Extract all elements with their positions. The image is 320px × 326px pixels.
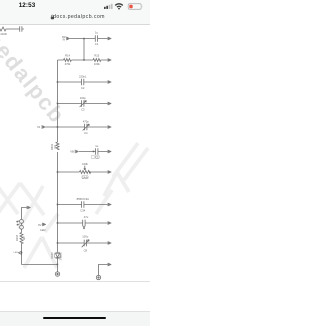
watermark pedalpcb large diagonal (bottom, angular logo strokes) [0,143,148,268]
status / url top bar [0,0,150,25]
node 9V floating flag [41,223,43,226]
wifi icon [115,4,123,7]
svg-text:47u: 47u [84,215,89,219]
url lock icon [51,17,54,20]
svg-text:1u: 1u [95,31,98,35]
arrow on C3 [80,101,87,107]
capacitor C3 row4 [82,100,84,106]
svg-text:LED: LED [14,252,19,254]
bottom toolbar + home indicator [0,311,150,326]
cell signal bars [104,6,108,9]
resistor R3 on bus [56,142,59,150]
svg-text:1M: 1M [53,145,57,149]
electrolytic body C7 below plates [83,226,85,229]
svg-text:C2: C2 [81,86,85,90]
svg-text:4k7: 4k7 [22,235,26,240]
capacitor C2 row3 [82,79,84,85]
svg-text:C3: C3 [81,107,85,111]
row6 wire [79,151,108,153]
node row5 left flag [41,125,43,129]
svg-text:100k: 100k [82,162,88,166]
capacitor C7 row9 [83,220,85,227]
row7 wire [58,171,108,173]
svg-text:220nL: 220nL [79,75,87,79]
svg-text:1N5817: 1N5817 [59,251,63,261]
svg-text:C34: C34 [80,208,85,212]
svg-text:9V: 9V [38,223,41,227]
status icons + url text as svg [0,0,150,325]
capacitor C1 row1 [95,35,97,41]
node LED top flag [26,206,28,209]
left bottom wire [22,264,58,266]
arrow on C8 [82,240,89,248]
node row8 flag [107,203,109,206]
row2 wire [58,59,108,61]
LED arrows [17,221,20,222]
row10 wire [58,242,108,244]
node row3 flag [107,80,109,83]
row7 wire tick [89,171,91,173]
top-left capacitor C100 [20,26,24,31]
resistor R1 row2 [64,59,72,62]
row5 wire [46,126,108,128]
svg-text:100u: 100u [82,235,88,239]
svg-text:pedalpcb: pedalpcb [0,26,70,128]
svg-text:IN: IN [63,39,66,42]
capacitor C8 row10 [84,240,86,247]
boxed labels (GND under C5, pot label box, C7 block) [82,155,99,178]
resistor R2 row2 [93,59,101,62]
node row2 flag [107,58,109,61]
row1 drop wire [83,39,85,61]
resistor R4 vertical [20,233,23,244]
svg-text:855K/C3A: 855K/C3A [77,197,89,201]
battery red fill [129,5,132,9]
arrow on C4 [83,124,90,130]
LED D2 circles [20,220,24,224]
node row5 right flag [107,125,109,128]
svg-text:C1: C1 [95,42,99,46]
node bottom right flag [107,263,109,266]
node row9 flag [107,221,109,224]
svg-text:LED: LED [40,228,45,232]
capacitor C4 row5 [85,124,87,130]
node row7 flag [107,170,109,173]
svg-text:100p: 100p [80,96,86,100]
svg-text:470p: 470p [83,120,89,124]
wire LED to resistor [21,229,23,232]
svg-text:D100: D100 [50,252,54,259]
left cluster: flag elbow [22,208,27,220]
node row4 flag [107,102,109,105]
schematic page [0,0,150,325]
node row6 right flag [107,150,109,153]
svg-text:C4: C4 [84,131,88,135]
svg-text:100R: 100R [0,32,6,36]
node OUT row1 flag [107,37,109,40]
svg-text:470k: 470k [65,62,71,66]
page separator line [0,280,150,283]
svg-text:C8: C8 [84,248,88,252]
row8 wire [58,204,108,206]
battery outline [128,4,141,10]
top-left resistor R100 (clipped) [0,27,20,31]
row9 wire [58,222,108,224]
svg-text:100k: 100k [94,62,100,66]
row3 wire [58,81,108,83]
svg-text:IN: IN [37,125,40,129]
svg-text:1u: 1u [95,144,98,148]
svg-text:VB: VB [70,150,74,154]
capacitor C6 row8 [82,201,84,207]
component value labels [0,31,100,261]
bus to terminal [57,261,59,272]
node IN row1 flag [65,37,67,41]
node row6 left flag [74,150,76,154]
node row10 flag [107,241,109,244]
svg-text:R14: R14 [65,54,70,58]
svg-text:R103: R103 [15,234,19,241]
potentiometer VR1 row7 [80,171,91,174]
wire resistor to bottom [21,244,23,265]
diode D1 on bus [55,253,59,257]
svg-text:R15: R15 [94,54,99,58]
bus wire vertical [57,60,59,253]
terminal circle bottom left [55,272,59,276]
row4 wire [58,103,108,105]
junction dots [21,38,94,265]
row1 wire [70,38,108,40]
bottom right terminal + wire [96,275,100,279]
connector flags (right-pointing) [27,37,112,267]
capacitor C5 row6 [96,148,98,154]
left flag marker [19,251,22,254]
